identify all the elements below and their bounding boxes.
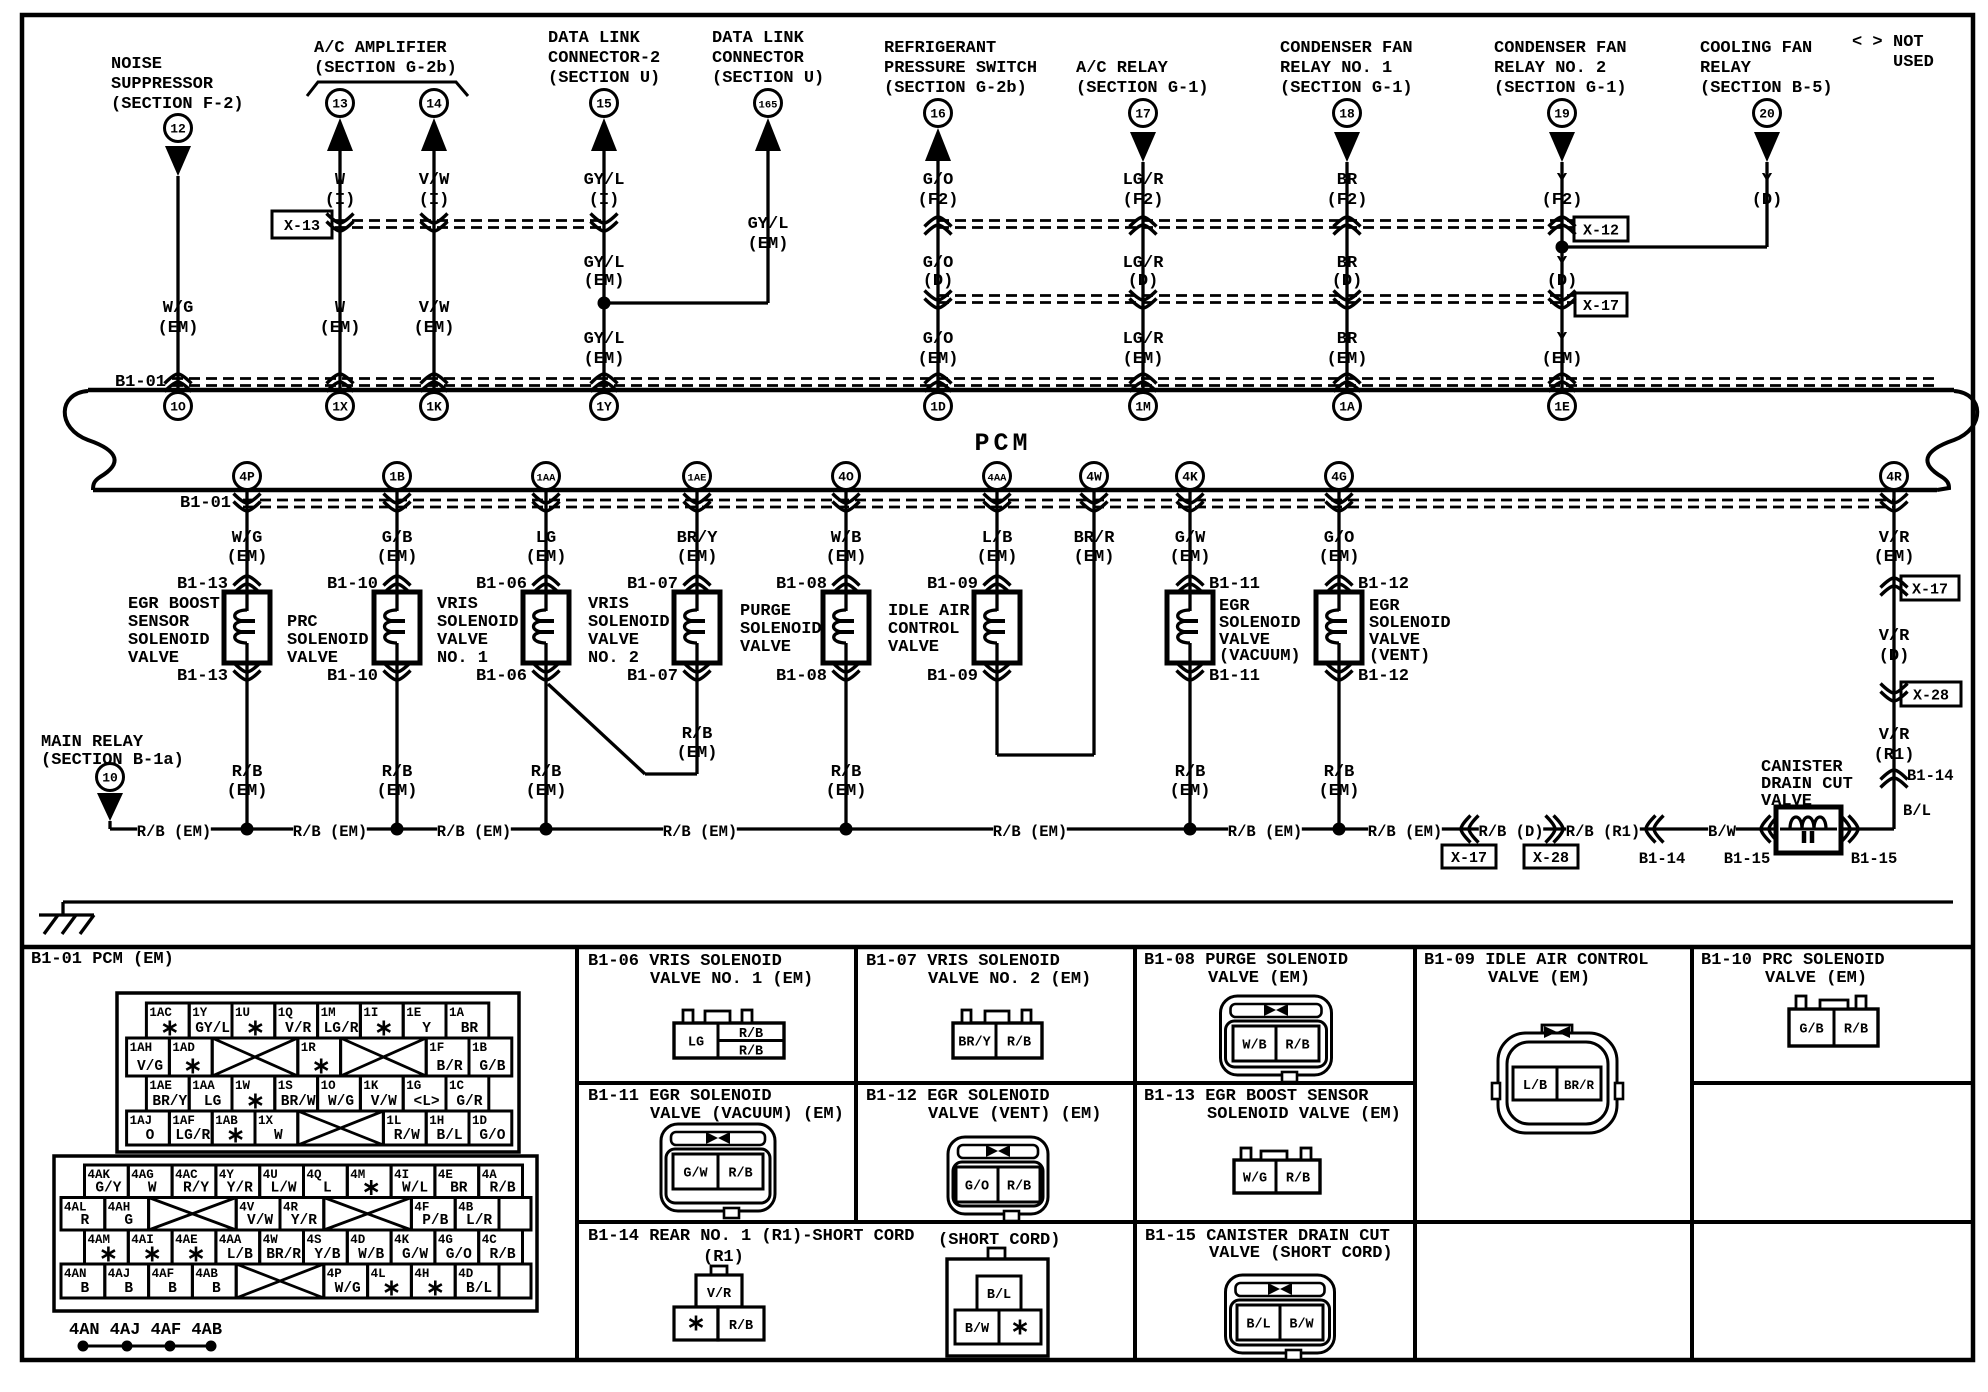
svg-text:(SECTION U): (SECTION U) (548, 69, 660, 88)
svg-text:R/B: R/B (739, 1044, 763, 1059)
svg-text:VALVE: VALVE (437, 631, 488, 650)
connector junction B1-12 top (1326, 575, 1410, 594)
connector table cell B1-13 EGR BOOST SENSOR SOLENOID VALVE (EM) (1144, 1087, 1401, 1124)
svg-text:(I): (I) (589, 191, 620, 210)
svg-text:PCM: PCM (974, 429, 1031, 458)
svg-text:L/B: L/B (1523, 1079, 1547, 1094)
connector X-12 box (1574, 217, 1628, 241)
svg-text:1X: 1X (258, 1114, 274, 1128)
svg-text:B1-09 IDLE AIR CONTROL: B1-09 IDLE AIR CONTROL (1424, 951, 1648, 970)
svg-text:B1-14: B1-14 (1907, 767, 1954, 785)
svg-text:(D): (D) (1879, 647, 1910, 666)
svg-text:(SECTION B-5): (SECTION B-5) (1700, 79, 1833, 98)
svg-text:G/B: G/B (1799, 1023, 1823, 1038)
connector junction B1-12 bottom (1326, 663, 1410, 687)
connector table cell B1-09 IDLE AIR CONTROL VALVE (EM) (1424, 951, 1648, 988)
svg-text:4AI: 4AI (131, 1233, 154, 1247)
svg-text:(D): (D) (1128, 272, 1159, 291)
connector junction X-13 at x=604 (591, 214, 618, 232)
svg-text:(EM): (EM) (227, 548, 268, 567)
svg-text:(EM): (EM) (377, 548, 418, 567)
svg-text:B1-08: B1-08 (776, 575, 827, 594)
ground symbol (39, 915, 94, 934)
svg-text:W/B: W/B (831, 529, 862, 548)
connector junction B1-06 bottom (476, 663, 560, 687)
svg-text:NO. 1: NO. 1 (437, 649, 488, 668)
svg-text:(EM): (EM) (584, 272, 625, 291)
svg-text:B/L: B/L (466, 1281, 492, 1297)
value label R/B (EM) (377, 763, 418, 801)
svg-text:V/R: V/R (1879, 627, 1910, 646)
svg-text:1AA: 1AA (537, 473, 557, 485)
wire R/B ground bus (110, 827, 1894, 830)
arrow at 10 (down) (97, 793, 123, 829)
svg-text:1L: 1L (386, 1114, 401, 1128)
connector circle 18 (1334, 100, 1361, 127)
svg-text:(EM): (EM) (158, 319, 199, 338)
table frame (22, 947, 1973, 1360)
pin 1AA (PCM) (533, 463, 560, 490)
connector junction X-13 at x=434 (421, 214, 448, 232)
svg-text:R/B (EM): R/B (EM) (663, 823, 737, 841)
wire 4AA L/B (997, 489, 1094, 755)
svg-text:BR: BR (1337, 171, 1358, 190)
svg-text:1R: 1R (301, 1041, 317, 1055)
svg-text:BR: BR (450, 1181, 468, 1197)
svg-text:W/G: W/G (335, 1281, 361, 1297)
value label Y (F2) (1542, 171, 1583, 210)
connector junction B1-01 at x=1562 (1549, 374, 1576, 392)
svg-text:R/W: R/W (394, 1128, 420, 1144)
op-amp PCM top edge (65, 390, 1954, 490)
svg-text:4L: 4L (371, 1267, 386, 1281)
svg-text:(EM): (EM) (918, 350, 959, 369)
connector junction B1-01 bottom at x=1894 (1881, 494, 1908, 512)
svg-text:B1-15: B1-15 (1724, 850, 1771, 868)
svg-text:(EM): (EM) (1319, 548, 1360, 567)
svg-text:(F2): (F2) (1123, 191, 1164, 210)
junction R/B bus at x=397 (391, 823, 404, 836)
svg-text:X-17: X-17 (1451, 850, 1487, 867)
svg-text:LG/R: LG/R (1123, 171, 1165, 190)
wire col14 V/W (432, 151, 435, 388)
value label V/R (D) (1879, 627, 1910, 666)
svg-text:B1-08 PURGE SOLENOID: B1-08 PURGE SOLENOID (1144, 951, 1348, 970)
value label GY/L (EM) col165 (748, 215, 789, 254)
connector junction B1-13 bottom (177, 663, 261, 687)
connector junction X-12 at x=938 (925, 217, 952, 235)
svg-text:REFRIGERANT: REFRIGERANT (884, 39, 996, 58)
svg-text:G/O: G/O (1324, 529, 1355, 548)
connector junction B1-01 bottom at x=546 (533, 494, 560, 512)
svg-text:B1-14: B1-14 (1639, 850, 1686, 868)
component name PRC SOLENOID VALVE (287, 613, 369, 668)
svg-text:LG: LG (688, 1036, 704, 1051)
value label V/R (R1) (1874, 726, 1915, 765)
svg-text:SOLENOID: SOLENOID (437, 613, 519, 632)
svg-text:LG: LG (536, 529, 556, 548)
svg-text:17: 17 (1135, 107, 1151, 122)
svg-text:(SECTION G-2b): (SECTION G-2b) (314, 59, 457, 78)
svg-text:B1-13 EGR BOOST SENSOR: B1-13 EGR BOOST SENSOR (1144, 1087, 1369, 1106)
pin 4AA (PCM) (984, 463, 1011, 490)
value label R/B (EM) (526, 763, 567, 801)
arrow at 13 (up) (327, 118, 353, 151)
junction R/B bus at x=1190 (1184, 823, 1197, 836)
component name EGR SOLENOID VALVE (VACUUM) (1219, 597, 1301, 666)
connector junction B1-01 bottom at x=397 (384, 494, 411, 512)
op-amp PCM name (974, 429, 1031, 458)
svg-text:1AE: 1AE (149, 1079, 172, 1093)
net label R/B (D) (1478, 820, 1543, 841)
node: REFRIGERANT PRESSURE SWITCH (SECTION G-2b) header (884, 39, 1037, 98)
value label LG/R (D) (1123, 254, 1165, 291)
connector junction B1-15 right on bus (1841, 816, 1898, 869)
pin 4O (PCM) (833, 463, 860, 490)
connector table cell B1-14 REAR NO.1 (R1)-SHORT CORD (588, 1227, 1060, 1267)
op-amp PCM bottom edge (93, 391, 1977, 490)
svg-text:1W: 1W (235, 1079, 251, 1093)
svg-text:4M: 4M (350, 1168, 365, 1182)
svg-text:Y: Y (422, 1021, 431, 1037)
value label G/O (F2) (918, 171, 959, 210)
svg-text:Y/R: Y/R (227, 1181, 253, 1197)
value label G/O (EM) (1319, 529, 1360, 567)
connector junction B1-01 bottom at x=846 (833, 494, 860, 512)
component name VRIS SOLENOID VALVE NO. 1 (437, 595, 519, 668)
svg-text:1AJ: 1AJ (130, 1114, 153, 1128)
svg-text:(SECTION G-1): (SECTION G-1) (1280, 79, 1413, 98)
svg-text:R/B (EM): R/B (EM) (993, 823, 1067, 841)
svg-text:R/B: R/B (728, 1167, 752, 1182)
svg-text:SOLENOID: SOLENOID (128, 631, 210, 650)
connector circle 10 (97, 764, 124, 791)
node: DATA LINK CONNECTOR (SECTION U) header (712, 29, 824, 88)
pin 1AE (PCM) (684, 463, 711, 490)
svg-text:CONDENSER FAN: CONDENSER FAN (1280, 39, 1413, 58)
svg-text:Y: Y (1557, 171, 1568, 190)
svg-text:L/R: L/R (466, 1213, 492, 1229)
svg-text:(EM): (EM) (1319, 782, 1360, 801)
svg-text:BR/R: BR/R (1074, 529, 1116, 548)
svg-text:B: B (124, 1281, 133, 1297)
svg-text:X-17: X-17 (1912, 582, 1948, 599)
svg-text:R/B: R/B (382, 763, 413, 782)
connector junction B1-13 top (177, 575, 261, 594)
value label GY/L (EM) (584, 254, 625, 291)
svg-text:GY/L: GY/L (584, 254, 625, 273)
connector circle 19 (1549, 100, 1576, 127)
svg-text:SOLENOID: SOLENOID (740, 620, 822, 639)
svg-text:V/R: V/R (1879, 726, 1910, 745)
svg-text:1AA: 1AA (192, 1079, 215, 1093)
wire col15 GY/L (602, 151, 605, 388)
svg-text:B1-01: B1-01 (180, 494, 231, 513)
svg-text:B1-12: B1-12 (1358, 667, 1409, 686)
pin 1Y (PCM) (591, 393, 618, 420)
svg-text:W/G: W/G (163, 299, 194, 318)
svg-text:W/B: W/B (1242, 1039, 1266, 1054)
value label LG (EM) (526, 529, 567, 567)
svg-text:1M: 1M (1135, 400, 1151, 415)
svg-text:SENSOR: SENSOR (128, 613, 190, 632)
connector junction B1-10 top (327, 575, 411, 594)
net B1-01 label (top) (115, 373, 166, 392)
svg-text:LG/R: LG/R (324, 1021, 359, 1037)
connector junction B1-01 bottom at x=247 (234, 494, 261, 512)
svg-text:V/W: V/W (419, 171, 450, 190)
svg-text:4G: 4G (438, 1233, 453, 1247)
ground pins 4AN 4AJ 4AF 4AB (69, 1321, 222, 1352)
svg-text:VALVE NO. 1 (EM): VALVE NO. 1 (EM) (650, 970, 813, 989)
svg-text:1A: 1A (1339, 400, 1355, 415)
value label LG/R (EM) (1123, 330, 1165, 369)
connector circle 165 (755, 90, 782, 117)
svg-text:(EM): (EM) (1542, 350, 1583, 369)
svg-text:165: 165 (759, 100, 778, 112)
svg-text:(EM): (EM) (1170, 782, 1211, 801)
svg-text:V/W: V/W (371, 1094, 397, 1110)
net B1-01 label (bottom) (180, 494, 231, 513)
svg-text:B/L: B/L (437, 1128, 463, 1144)
value label Y (EM) (1542, 330, 1583, 369)
svg-text:(EM): (EM) (584, 350, 625, 369)
svg-text:LG/R: LG/R (175, 1128, 210, 1144)
svg-text:G/O: G/O (923, 330, 954, 349)
svg-text:4AN 4AJ 4AF 4AB: 4AN 4AJ 4AF 4AB (69, 1321, 222, 1340)
svg-text:B1-10: B1-10 (327, 575, 378, 594)
svg-text:R/B: R/B (490, 1247, 516, 1263)
node: CONDENSER FAN RELAY NO.1 (SECTION G-1) header (1280, 39, 1413, 98)
svg-text:B1-09: B1-09 (927, 575, 978, 594)
svg-text:CONTROL: CONTROL (888, 620, 959, 639)
value label BR/Y (EM) (677, 529, 719, 567)
svg-text:V/R: V/R (285, 1021, 311, 1037)
svg-text:VALVE NO. 2 (EM): VALVE NO. 2 (EM) (928, 970, 1091, 989)
svg-text:(EM): (EM) (977, 548, 1018, 567)
component name PURGE SOLENOID VALVE (740, 602, 822, 657)
connector table cell B1-12 EGR SOLENOID VALVE (VENT) (EM) (866, 1087, 1101, 1124)
wire 1AA LG to R/B (544, 489, 547, 829)
node: A/C RELAY (SECTION G-1) header (1076, 59, 1209, 98)
value label V/R (EM) (1874, 529, 1915, 567)
value label L/B (EM) (977, 529, 1018, 567)
svg-text:1AE: 1AE (688, 473, 707, 485)
svg-text:VALVE (EM): VALVE (EM) (1488, 969, 1590, 988)
connector junction B1-01 bottom at x=997 (984, 494, 1011, 512)
svg-text:B1-10 PRC SOLENOID: B1-10 PRC SOLENOID (1701, 951, 1885, 970)
svg-text:1Q: 1Q (278, 1006, 294, 1020)
svg-text:BR/W: BR/W (281, 1094, 316, 1110)
svg-text:DATA LINK: DATA LINK (712, 29, 805, 48)
svg-text:V/R: V/R (1879, 529, 1910, 548)
connector circle 13 (327, 90, 354, 117)
svg-text:(SECTION G-1): (SECTION G-1) (1076, 79, 1209, 98)
arrow at 18 (down) (1334, 132, 1360, 162)
value label R/B (EM) (1170, 763, 1211, 801)
arrow at 12 (down) (165, 146, 191, 176)
connector junction B1-01 at x=938 (925, 374, 952, 392)
svg-text:(EM): (EM) (1874, 548, 1915, 567)
connector junction B1-01 at x=1143 (1130, 374, 1157, 392)
connector junction B1-09 top (927, 575, 1011, 594)
value label BR (EM) (1327, 330, 1368, 369)
svg-text:R/B: R/B (1175, 763, 1206, 782)
connector junction B1-14 on bus (1639, 816, 1686, 869)
value label R/B (EM) (227, 763, 268, 801)
pin 1K (PCM) (421, 393, 448, 420)
svg-text:1M: 1M (321, 1006, 336, 1020)
svg-text:LG/R: LG/R (1123, 254, 1165, 273)
wire 4R V/R to B/L (1892, 489, 1895, 829)
svg-text:R/B (EM): R/B (EM) (293, 823, 367, 841)
svg-text:Y: Y (1557, 330, 1568, 349)
value label W/G (EM) col12 (158, 299, 199, 338)
svg-text:R/B: R/B (1286, 1172, 1310, 1187)
svg-text:(EM): (EM) (826, 782, 867, 801)
pin 4G (PCM) (1326, 463, 1353, 490)
svg-text:20: 20 (1759, 107, 1775, 122)
wire col165 GY/L (598, 151, 769, 310)
ground bus line (63, 902, 1953, 915)
svg-text:V/W: V/W (419, 299, 450, 318)
svg-text:1AC: 1AC (149, 1006, 172, 1020)
svg-text:RELAY: RELAY (1700, 59, 1752, 78)
connector junction B1-01 at x=604 (591, 374, 618, 392)
svg-text:CONDENSER FAN: CONDENSER FAN (1494, 39, 1627, 58)
svg-text:PRESSURE SWITCH: PRESSURE SWITCH (884, 59, 1037, 78)
wire col16 G/O (936, 161, 939, 388)
connector junction X-28 on 4R wire (1881, 682, 1962, 706)
svg-text:1K: 1K (426, 400, 442, 415)
pin 4R (PCM) (1881, 463, 1908, 490)
svg-text:NO. 2: NO. 2 (588, 649, 639, 668)
svg-text:Y: Y (1762, 171, 1773, 190)
svg-text:MAIN RELAY: MAIN RELAY (41, 733, 144, 752)
net label R/B (EM) (663, 820, 737, 841)
svg-text:VRIS: VRIS (588, 595, 629, 614)
junction R/B bus at x=247 (241, 823, 254, 836)
connector table cell B1-08 PURGE SOLENOID VALVE (EM) (1144, 951, 1348, 988)
connector table cell B1-10 PRC SOLENOID VALVE (EM) (1701, 951, 1885, 988)
svg-text:(EM): (EM) (414, 319, 455, 338)
connector X-17 dashed line (938, 296, 1574, 303)
svg-text:(EM): (EM) (227, 782, 268, 801)
value label R/B (EM) (1319, 763, 1360, 801)
svg-text:R/B: R/B (1324, 763, 1355, 782)
connector junction B1-01 at x=1347 (1334, 374, 1361, 392)
wire 4K G/W to R/B (1188, 489, 1191, 829)
svg-text:1D: 1D (472, 1114, 488, 1128)
svg-text:13: 13 (332, 97, 348, 112)
svg-text:1S: 1S (278, 1079, 294, 1093)
svg-text:B/W: B/W (1708, 823, 1737, 841)
svg-text:(EM): (EM) (526, 548, 567, 567)
svg-text:1U: 1U (235, 1006, 250, 1020)
svg-text:1AF: 1AF (172, 1114, 195, 1128)
pin 1D (PCM) (925, 393, 952, 420)
svg-text:VALVE (EM): VALVE (EM) (1208, 969, 1310, 988)
net label R/B (EM) (1368, 820, 1442, 841)
value label BR (D) (1332, 254, 1363, 291)
value label R/B (EM) (826, 763, 867, 801)
connector X-17 box (1575, 293, 1627, 316)
pin 1A (PCM) (1334, 393, 1361, 420)
svg-text:B1-06 VRIS SOLENOID: B1-06 VRIS SOLENOID (588, 952, 782, 971)
svg-text:(EM): (EM) (526, 782, 567, 801)
svg-text:L/B: L/B (982, 529, 1013, 548)
value label GY/L (I) (584, 171, 625, 210)
svg-text:G/W: G/W (402, 1247, 428, 1263)
svg-text:LG/R: LG/R (1123, 330, 1165, 349)
solenoid coil component B1-07 (674, 592, 720, 663)
svg-text:COOLING FAN: COOLING FAN (1700, 39, 1812, 58)
connector junction B1-01 at x=178 (165, 374, 192, 392)
svg-text:B1-09: B1-09 (927, 667, 978, 686)
svg-text:(F2): (F2) (918, 191, 959, 210)
svg-text:(SECTION G-1): (SECTION G-1) (1494, 79, 1627, 98)
pin 1B (PCM) (384, 463, 411, 490)
svg-text:(D): (D) (923, 272, 954, 291)
svg-text:1B: 1B (472, 1041, 488, 1055)
connector junction B1-11 bottom (1177, 663, 1261, 687)
svg-text:BR/Y: BR/Y (677, 529, 719, 548)
svg-text:V/G: V/G (137, 1059, 163, 1075)
value label V/W (I) (419, 171, 450, 210)
svg-text:1C: 1C (449, 1079, 465, 1093)
svg-text:SUPPRESSOR: SUPPRESSOR (111, 75, 214, 94)
svg-text:B1-07: B1-07 (627, 667, 678, 686)
svg-text:(R1): (R1) (1874, 746, 1915, 765)
connector drawing B1-06 (674, 1010, 784, 1059)
svg-text:10: 10 (102, 771, 118, 786)
connector junction X-17 on 4R wire (1881, 576, 1960, 600)
svg-text:SOLENOID: SOLENOID (287, 631, 369, 650)
svg-text:(EM): (EM) (1327, 350, 1368, 369)
svg-text:(EM): (EM) (677, 744, 718, 763)
note: < > NOT USED (1852, 33, 1934, 72)
svg-text:4R: 4R (1886, 470, 1902, 485)
svg-text:R/B: R/B (490, 1181, 516, 1197)
connector junction B1-15 left on bus (1724, 816, 1779, 869)
svg-text:< >: < > (1852, 33, 1883, 52)
pin 4K (PCM) (1177, 463, 1204, 490)
svg-text:PURGE: PURGE (740, 602, 791, 621)
svg-text:RELAY NO. 2: RELAY NO. 2 (1494, 59, 1606, 78)
svg-text:VRIS: VRIS (437, 595, 478, 614)
svg-text:W: W (335, 299, 346, 318)
pin 1E (PCM) (1549, 393, 1576, 420)
svg-text:R/B: R/B (729, 1319, 753, 1334)
svg-text:4AA: 4AA (219, 1233, 242, 1247)
net B1-01 dashed line (bottom) (243, 500, 1894, 507)
solenoid coil component B1-11 (1167, 592, 1213, 663)
wire col13 W (338, 151, 341, 388)
svg-text:B1-10: B1-10 (327, 667, 378, 686)
svg-text:4W: 4W (263, 1233, 279, 1247)
svg-text:G/R: G/R (456, 1094, 482, 1110)
svg-text:1AH: 1AH (130, 1041, 153, 1055)
wire 4P W/G to R/B (245, 489, 248, 829)
svg-text:W/G: W/G (1243, 1172, 1267, 1187)
svg-text:VALVE: VALVE (888, 638, 939, 657)
svg-text:1Y: 1Y (596, 400, 612, 415)
svg-text:IDLE AIR: IDLE AIR (888, 602, 970, 621)
svg-text:14: 14 (426, 97, 442, 112)
svg-text:W/G: W/G (232, 529, 263, 548)
svg-text:R/B (EM): R/B (EM) (437, 823, 511, 841)
svg-text:GY/L: GY/L (748, 215, 789, 234)
